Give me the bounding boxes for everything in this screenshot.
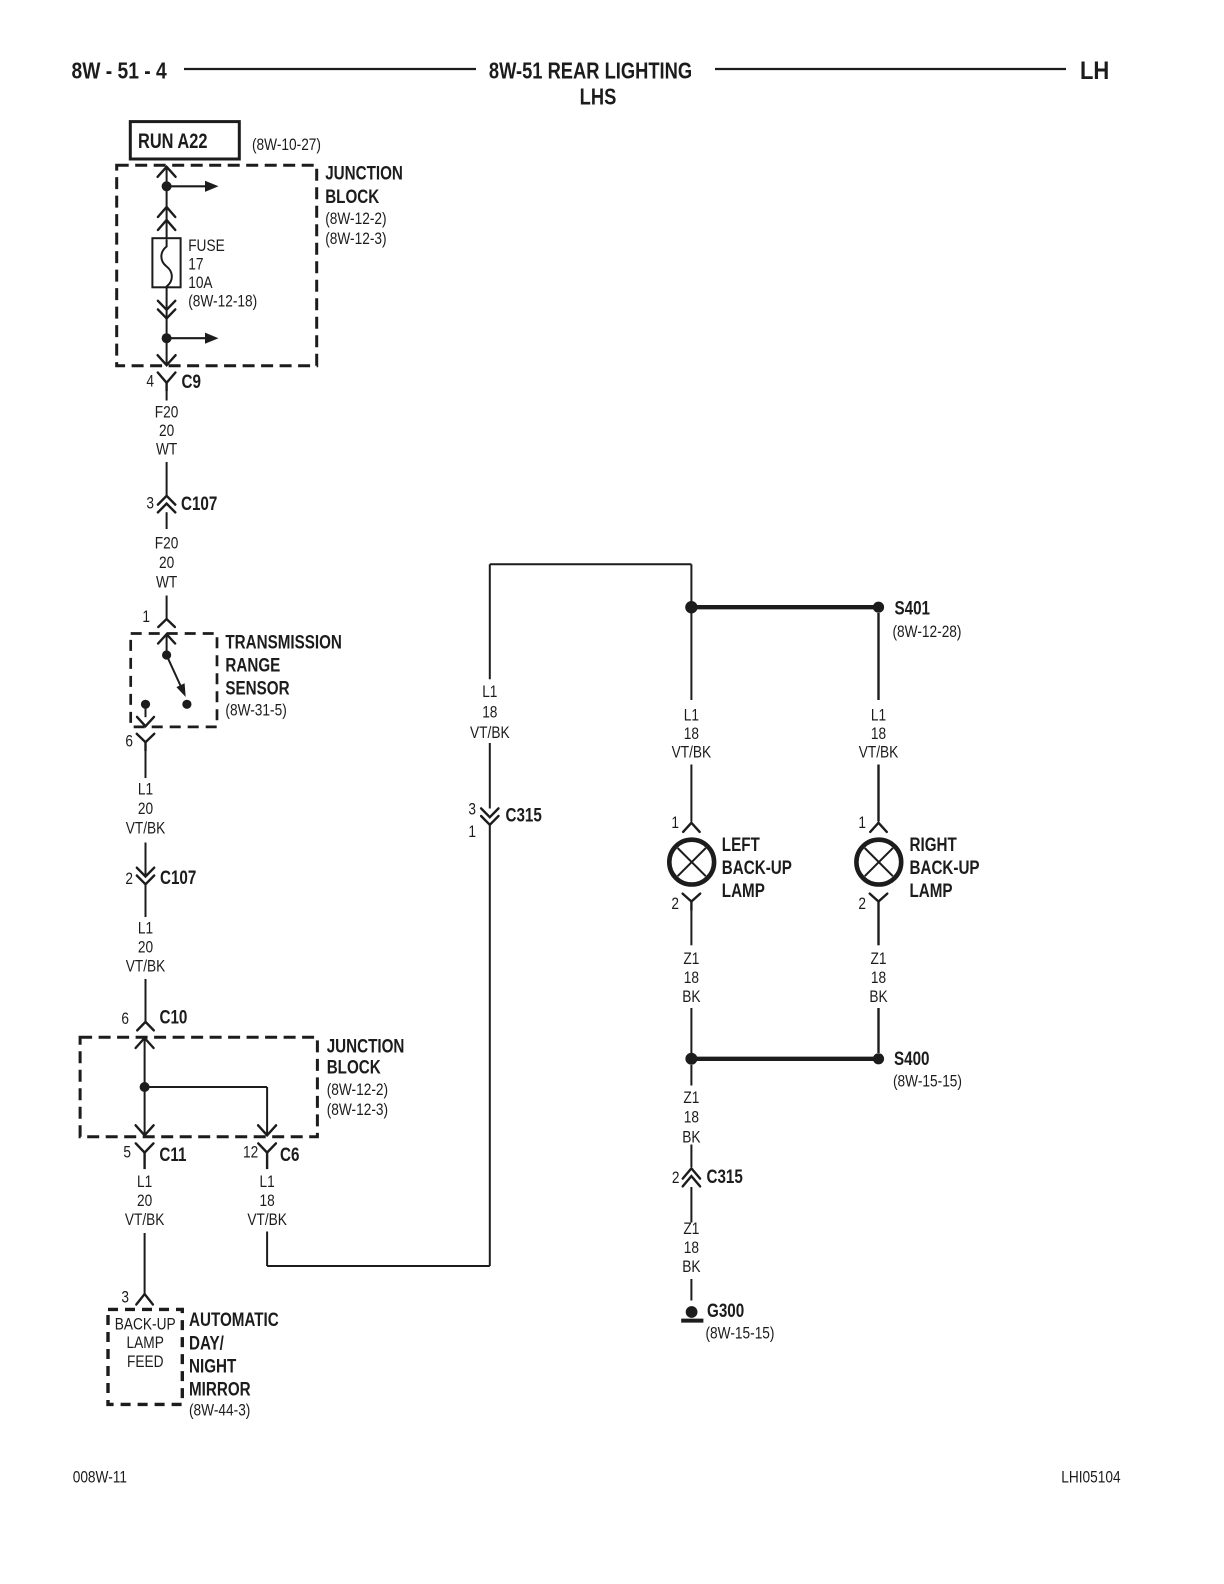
svg-text:NIGHT: NIGHT: [189, 1355, 237, 1377]
svg-text:L1: L1: [684, 706, 699, 724]
svg-text:S400: S400: [894, 1047, 929, 1069]
svg-text:2: 2: [672, 1169, 680, 1187]
svg-text:008W-11: 008W-11: [73, 1468, 127, 1486]
svg-text:WT: WT: [156, 573, 177, 591]
svg-text:18: 18: [259, 1192, 274, 1210]
svg-text:VT/BK: VT/BK: [859, 743, 899, 761]
svg-text:Z1: Z1: [683, 1089, 699, 1107]
svg-text:12: 12: [243, 1143, 258, 1161]
svg-text:RUN A22: RUN A22: [138, 129, 207, 152]
svg-text:RIGHT: RIGHT: [910, 833, 958, 855]
svg-text:VT/BK: VT/BK: [126, 819, 166, 837]
svg-text:1: 1: [142, 608, 150, 626]
svg-text:18: 18: [871, 725, 886, 743]
svg-text:JUNCTION: JUNCTION: [327, 1034, 405, 1056]
svg-text:(8W-12-3): (8W-12-3): [325, 230, 386, 248]
svg-text:S401: S401: [895, 597, 931, 619]
svg-text:C315: C315: [707, 1165, 744, 1187]
svg-text:(8W-12-2): (8W-12-2): [325, 210, 386, 228]
svg-text:20: 20: [137, 1192, 152, 1210]
svg-text:BK: BK: [682, 1128, 700, 1146]
svg-text:SENSOR: SENSOR: [225, 677, 290, 699]
svg-text:BLOCK: BLOCK: [325, 185, 379, 207]
svg-text:(8W-12-28): (8W-12-28): [893, 623, 962, 641]
svg-text:17: 17: [188, 255, 203, 273]
svg-text:VT/BK: VT/BK: [672, 743, 712, 761]
svg-text:1: 1: [468, 823, 476, 841]
svg-text:BLOCK: BLOCK: [327, 1056, 381, 1078]
svg-text:LAMP: LAMP: [127, 1334, 164, 1352]
svg-text:1: 1: [671, 814, 679, 832]
svg-text:BK: BK: [682, 988, 700, 1006]
svg-text:(8W-10-27): (8W-10-27): [252, 136, 321, 154]
svg-text:VT/BK: VT/BK: [247, 1211, 287, 1229]
svg-text:G300: G300: [707, 1299, 744, 1321]
svg-text:18: 18: [684, 1239, 699, 1257]
svg-text:20: 20: [159, 554, 174, 572]
svg-text:RANGE: RANGE: [225, 654, 280, 676]
svg-text:L1: L1: [482, 683, 497, 701]
svg-text:TRANSMISSION: TRANSMISSION: [225, 631, 341, 653]
svg-text:8W-51 REAR LIGHTING: 8W-51 REAR LIGHTING: [489, 58, 692, 84]
svg-text:18: 18: [871, 969, 886, 987]
svg-text:LH: LH: [1080, 57, 1109, 85]
svg-text:2: 2: [671, 895, 679, 913]
svg-text:20: 20: [138, 938, 153, 956]
svg-text:2: 2: [858, 895, 866, 913]
svg-text:(8W-44-3): (8W-44-3): [189, 1401, 250, 1419]
svg-text:1: 1: [858, 814, 866, 832]
svg-text:FUSE: FUSE: [188, 237, 225, 255]
svg-text:(8W-31-5): (8W-31-5): [225, 701, 286, 719]
svg-text:C6: C6: [280, 1143, 300, 1165]
svg-text:3: 3: [468, 800, 476, 818]
svg-text:18: 18: [684, 725, 699, 743]
svg-text:L1: L1: [138, 919, 153, 937]
svg-text:(8W-12-2): (8W-12-2): [327, 1081, 388, 1099]
svg-text:F20: F20: [155, 534, 179, 552]
svg-text:8W - 51 - 4: 8W - 51 - 4: [72, 58, 167, 84]
svg-text:20: 20: [159, 422, 174, 440]
svg-text:C315: C315: [506, 804, 543, 826]
svg-text:LAMP: LAMP: [722, 879, 765, 901]
svg-text:WT: WT: [156, 440, 177, 458]
svg-text:C107: C107: [160, 866, 196, 888]
svg-text:C107: C107: [181, 492, 217, 514]
svg-text:(8W-15-15): (8W-15-15): [893, 1072, 962, 1090]
svg-text:LEFT: LEFT: [722, 833, 760, 855]
svg-text:C11: C11: [159, 1143, 186, 1165]
svg-text:Z1: Z1: [871, 950, 887, 968]
svg-text:BK: BK: [682, 1258, 700, 1276]
svg-text:L1: L1: [137, 1173, 152, 1191]
svg-text:18: 18: [684, 1109, 699, 1127]
svg-text:2: 2: [125, 870, 133, 888]
svg-text:L1: L1: [871, 706, 886, 724]
svg-text:FEED: FEED: [127, 1353, 164, 1371]
svg-text:LHI05104: LHI05104: [1061, 1468, 1120, 1486]
svg-text:C9: C9: [182, 370, 202, 392]
svg-text:18: 18: [482, 703, 497, 721]
svg-text:BACK-UP: BACK-UP: [115, 1315, 176, 1333]
svg-text:F20: F20: [155, 403, 179, 421]
svg-text:BACK-UP: BACK-UP: [910, 856, 980, 878]
svg-text:LAMP: LAMP: [910, 879, 953, 901]
svg-text:VT/BK: VT/BK: [125, 1211, 165, 1229]
svg-text:(8W-12-3): (8W-12-3): [327, 1101, 388, 1119]
svg-text:Z1: Z1: [683, 1220, 699, 1238]
svg-text:3: 3: [146, 494, 154, 512]
svg-text:4: 4: [146, 372, 154, 390]
svg-text:(8W-15-15): (8W-15-15): [706, 1324, 775, 1342]
svg-text:10A: 10A: [188, 274, 213, 292]
svg-text:VT/BK: VT/BK: [470, 724, 510, 742]
svg-text:JUNCTION: JUNCTION: [325, 162, 403, 184]
svg-text:AUTOMATIC: AUTOMATIC: [189, 1308, 279, 1330]
svg-text:BK: BK: [869, 988, 887, 1006]
svg-text:LHS: LHS: [580, 84, 617, 110]
svg-text:DAY/: DAY/: [189, 1332, 224, 1354]
svg-text:3: 3: [121, 1288, 129, 1306]
svg-text:C10: C10: [160, 1006, 188, 1028]
svg-text:L1: L1: [138, 780, 153, 798]
svg-text:BACK-UP: BACK-UP: [722, 856, 792, 878]
svg-text:20: 20: [138, 800, 153, 818]
svg-text:MIRROR: MIRROR: [189, 1378, 251, 1400]
svg-text:6: 6: [121, 1010, 129, 1028]
svg-text:(8W-12-18): (8W-12-18): [188, 292, 257, 310]
svg-text:L1: L1: [259, 1173, 274, 1191]
svg-text:5: 5: [123, 1143, 131, 1161]
svg-text:Z1: Z1: [683, 950, 699, 968]
svg-text:6: 6: [125, 732, 133, 750]
svg-text:VT/BK: VT/BK: [126, 957, 166, 975]
svg-text:18: 18: [684, 969, 699, 987]
